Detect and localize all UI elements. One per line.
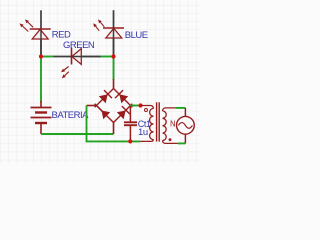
capacitor Ct1 xyxy=(124,107,137,142)
emission arrow 1 BLUE LED xyxy=(93,19,104,30)
junction node A (red LED / green LED / battery) xyxy=(39,54,43,58)
wire battery to bridge bottom xyxy=(41,133,114,135)
battery top lead xyxy=(40,101,42,108)
emission arrow 2 GREEN LED xyxy=(65,72,69,76)
diode 4 cathode bar xyxy=(122,106,130,114)
pin right of GREEN LED xyxy=(81,56,101,58)
AC top lead xyxy=(184,108,186,117)
junction node C (bridge right / transformer primary / cap) xyxy=(138,103,142,107)
pin top of RED LED xyxy=(40,10,42,29)
cap plate top xyxy=(124,121,137,123)
bridge edge top-right xyxy=(114,89,133,108)
diode 4 triangle (bottom-right edge) xyxy=(117,111,126,120)
battery bottom lead xyxy=(40,123,42,134)
cathode bar GREEN LED xyxy=(71,48,73,65)
triangle BLUE LED xyxy=(106,28,122,38)
diode 1 triangle (top-left edge) xyxy=(99,94,108,103)
junction node B (blue LED / green LED / bridge top) xyxy=(111,54,115,58)
AC circle xyxy=(177,116,195,134)
cap bottom lead xyxy=(129,126,131,142)
wire node A to green LED xyxy=(41,56,54,58)
wire node B down to bridge xyxy=(113,57,115,80)
pin through triangle xyxy=(113,29,115,57)
cathode bar RED LED xyxy=(30,28,51,30)
core line 2 xyxy=(158,102,160,141)
svg-text:GREEN: GREEN xyxy=(63,40,95,51)
AC bottom lead xyxy=(184,134,186,143)
svg-text:BATERIA: BATERIA xyxy=(52,110,90,121)
LED D2 GREEN (horizontal) xyxy=(53,40,101,78)
primary bottom pin xyxy=(140,140,153,142)
emission arrow 1 GREEN LED xyxy=(61,67,69,79)
svg-text:N: N xyxy=(170,119,176,128)
svg-text:1u: 1u xyxy=(138,127,148,138)
diode 2 triangle (top-right edge) xyxy=(119,94,128,103)
primary polarity ring xyxy=(145,109,148,112)
bridge left pin xyxy=(87,105,97,107)
LED D3 BLUE xyxy=(93,10,148,56)
bridge bottom pin xyxy=(113,123,115,135)
secondary polarity dot xyxy=(169,138,172,141)
AC source V1 xyxy=(177,108,195,143)
transformer TR1 xyxy=(140,102,178,143)
wire node A down to battery xyxy=(40,57,42,103)
primary top pin xyxy=(141,106,154,109)
wire transformer secondary bottom to AC source xyxy=(178,142,186,144)
cathode bar BLUE LED xyxy=(103,27,124,29)
pin bottom of RED LED xyxy=(40,29,42,57)
pin through GREEN LED triangle xyxy=(73,56,102,58)
svg-text:BLUE: BLUE xyxy=(125,30,148,41)
sine wave xyxy=(178,123,192,129)
pin top of BLUE LED xyxy=(113,10,115,28)
pin through triangle xyxy=(40,30,42,57)
battery plate 3 long xyxy=(31,117,52,119)
battery plate 1 long xyxy=(31,107,52,109)
core line 1 xyxy=(156,102,158,141)
wire transformer secondary top to AC source xyxy=(176,107,185,109)
diode 1 cathode bar xyxy=(104,90,112,98)
triangle GREEN LED xyxy=(72,49,82,65)
battery plate 4 short xyxy=(35,122,47,124)
diode bridge BR1 xyxy=(87,79,133,134)
bridge edge bottom-right xyxy=(114,104,133,123)
LED D1 RED xyxy=(20,10,71,56)
pin bottom of BLUE LED xyxy=(113,28,115,57)
triangle RED LED xyxy=(32,29,48,39)
bridge edge top-left xyxy=(95,89,114,108)
wire bridge right vertex to node C xyxy=(131,105,141,107)
diode 3 cathode bar xyxy=(97,106,105,114)
svg-text:RED: RED xyxy=(52,30,71,41)
cap plate bottom xyxy=(124,124,137,126)
secondary winding xyxy=(163,111,167,141)
diode 2 cathode bar xyxy=(115,90,123,98)
wire green LED to node B xyxy=(101,56,114,58)
emission arrow 2 RED LED xyxy=(22,26,28,32)
primary winding xyxy=(150,108,154,139)
junction node D (cap bottom on bottom wire) xyxy=(128,139,132,143)
diode 3 triangle (bottom-left edge) xyxy=(102,111,111,120)
cap top lead xyxy=(129,107,131,122)
bridge top pin xyxy=(113,79,115,89)
emission arrow 2 BLUE LED xyxy=(96,26,100,31)
secondary bottom pin xyxy=(163,141,178,144)
pin left of GREEN LED xyxy=(53,56,72,58)
wire bridge left vertex down and along bottom xyxy=(87,106,141,142)
bridge edge bottom-left xyxy=(95,104,114,123)
secondary top pin xyxy=(163,108,177,111)
battery plate 2 short xyxy=(35,111,47,113)
emission arrow 1 RED LED xyxy=(20,20,34,32)
battery BAT1 xyxy=(31,101,52,134)
